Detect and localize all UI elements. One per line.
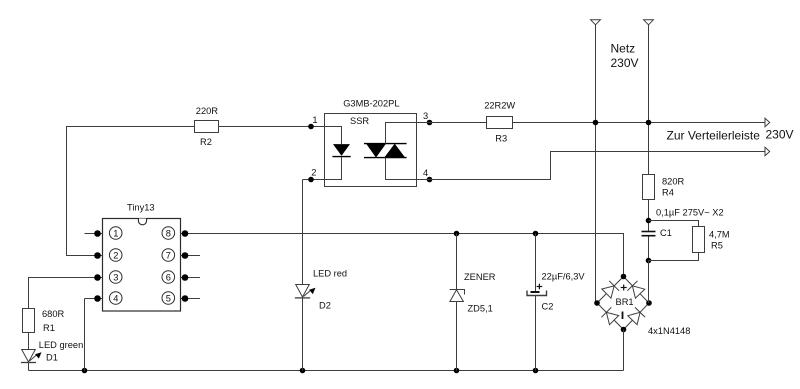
BR1 diode top-right — [627, 281, 644, 298]
zener diode ZD5,1 — [450, 272, 496, 313]
wire C2 branch upper — [535, 234, 537, 292]
svg-text:1: 1 — [113, 228, 118, 238]
capacitor C1 — [642, 228, 672, 238]
svg-text:4x1N4148: 4x1N4148 — [648, 326, 690, 336]
svg-text:230V: 230V — [611, 56, 639, 70]
wire bottom rail — [29, 370, 624, 372]
wire SSR pin4 to output arrow (phase 2 out) — [417, 152, 766, 180]
wire D2 to ground rail — [302, 298, 304, 371]
node bottom rail / zener — [454, 368, 460, 374]
Tiny13 pin 1 — [85, 227, 122, 240]
svg-text:LED green: LED green — [39, 340, 83, 350]
node BR1 bottom — [621, 327, 627, 333]
node SSR pin2 dot — [308, 177, 314, 183]
svg-text:D2: D2 — [319, 301, 331, 311]
svg-text:SSR: SSR — [350, 116, 369, 126]
Tiny13 pin 5 — [162, 292, 200, 305]
svg-text:820R: 820R — [662, 177, 685, 187]
resistor R3 — [484, 101, 515, 144]
BR1 diode bottom-left — [601, 307, 618, 324]
node SSR pin4 dot — [427, 177, 433, 183]
arrow output phase 1 — [765, 118, 770, 127]
Tiny13 pin 7 — [162, 249, 200, 262]
svg-text:3: 3 — [113, 272, 118, 282]
wire SSR pin2 down through D2 — [302, 180, 304, 285]
svg-text:G3MB-202PL: G3MB-202PL — [343, 99, 399, 109]
node SSR pin3 dot — [427, 120, 433, 126]
node SSR pin1 dot — [308, 124, 314, 130]
Tiny13 pin 2 — [85, 249, 122, 262]
svg-text:C1: C1 — [660, 228, 672, 238]
node junction wire1/netz2 — [646, 120, 652, 126]
node bottom rail / C2 — [533, 368, 539, 374]
svg-text:220R: 220R — [196, 106, 219, 116]
wire C2 branch lower — [535, 296, 537, 371]
wire Netz phase2 upper vertical — [648, 25, 650, 175]
svg-text:4: 4 — [113, 293, 118, 303]
power symbol Netz phase 2 (arrow) — [644, 20, 654, 25]
node BR1 left — [594, 300, 600, 306]
svg-text:0,1µF 275V~ X2: 0,1µF 275V~ X2 — [656, 208, 724, 218]
wire R1 to LED D1 — [28, 333, 30, 350]
svg-text:5: 5 — [166, 293, 171, 303]
svg-text:Zur Verteilerleiste: Zur Verteilerleiste — [667, 129, 761, 143]
wire R4 to C1 node — [648, 200, 650, 232]
Tiny13 pin 4 — [85, 292, 122, 305]
wire R2 net: from R2 left down to Tiny13 pin2 — [67, 127, 195, 256]
Tiny13 pin 3 — [85, 271, 122, 284]
wire zener branch upper — [456, 234, 458, 290]
svg-text:D1: D1 — [46, 352, 58, 362]
BR1 minus mark — [622, 312, 624, 320]
svg-text:22R2W: 22R2W — [484, 101, 515, 111]
wire R3 to output arrow (phase 1 out) — [513, 122, 766, 124]
wire C1 bottom to lower node — [648, 237, 650, 304]
wire Netz phase1 vertical — [595, 25, 597, 303]
svg-text:2: 2 — [311, 167, 316, 177]
wire D1 to ground rail — [28, 363, 30, 371]
node pin8 wire / C2 — [533, 231, 539, 237]
svg-text:6: 6 — [166, 272, 171, 282]
svg-text:2: 2 — [113, 250, 118, 260]
svg-text:ZD5,1: ZD5,1 — [468, 303, 493, 313]
svg-text:680R: 680R — [42, 309, 65, 319]
node bottom rail / D2 — [300, 368, 306, 374]
svg-text:3: 3 — [423, 111, 428, 121]
arrow output phase 2 — [765, 147, 770, 156]
wire zener branch lower — [456, 302, 458, 371]
svg-text:LED red: LED red — [313, 269, 347, 279]
svg-text:230V: 230V — [766, 127, 794, 141]
node C1 bottom junction — [646, 258, 652, 264]
wire pin4 down to rail — [84, 299, 86, 371]
LED red D2 — [295, 269, 347, 311]
wire BR1 right up to C1 node — [648, 261, 650, 304]
wire R2 to SSR pin1 — [219, 126, 325, 128]
IC Tiny13 box — [103, 203, 181, 312]
resistor R5 — [693, 227, 730, 253]
SSR internal triac — [364, 144, 407, 158]
svg-text:4: 4 — [423, 168, 428, 178]
resistor R1 — [23, 309, 65, 334]
capacitor C2 (electrolytic) — [527, 272, 585, 312]
wire R5 parallel loop bottom — [649, 253, 699, 261]
svg-text:C2: C2 — [542, 301, 554, 311]
label Zur Verteilerleiste 230V — [667, 127, 794, 142]
BR1 diode bottom-right — [628, 307, 645, 324]
svg-text:22µF/6,3V: 22µF/6,3V — [542, 272, 586, 282]
svg-text:1: 1 — [312, 115, 317, 125]
SSR triac bottom wire to pin4 — [386, 158, 417, 180]
node BR1 right — [646, 300, 652, 306]
wire pin8 to bridge top — [200, 234, 624, 277]
svg-text:BR1: BR1 — [616, 297, 634, 307]
SSR triac top wire to pin3 — [386, 123, 417, 144]
LED green D1 — [21, 340, 83, 362]
SSR internal LED wire — [325, 127, 342, 145]
label Netz 230V — [611, 42, 639, 70]
svg-text:R1: R1 — [43, 323, 55, 333]
svg-text:Tiny13: Tiny13 — [127, 203, 155, 213]
SSR internal LED (filled diode) — [332, 144, 350, 157]
svg-text:R3: R3 — [495, 133, 507, 143]
resistor R2 — [195, 106, 219, 147]
svg-text:R2: R2 — [200, 137, 212, 147]
svg-text:4,7M: 4,7M — [709, 229, 730, 239]
Tiny13 pin 8 — [162, 227, 200, 240]
wire BR1 bottom to rail — [623, 330, 625, 371]
wire R5 parallel loop top — [649, 221, 699, 227]
bridge rectifier BR1 diamond — [597, 277, 649, 330]
opto-triac SSR U1 G3MB-202PL box — [325, 99, 417, 187]
node BR1 top — [621, 274, 627, 280]
wire SSR pin2 stub — [303, 179, 325, 181]
BR1 diode top-left — [602, 281, 619, 298]
svg-text:R4: R4 — [662, 188, 674, 198]
node C1 top junction — [646, 218, 652, 224]
svg-text:ZENER: ZENER — [464, 272, 496, 282]
node junction wire1/netz1 — [593, 120, 599, 126]
node pin8 wire / zener — [454, 231, 460, 237]
BR1 plus mark — [621, 285, 627, 291]
svg-text:8: 8 — [166, 228, 171, 238]
node bottom rail / pin4 — [82, 368, 88, 374]
resistor R4 — [643, 175, 685, 200]
svg-text:7: 7 — [166, 250, 171, 260]
SSR internal LED lower wire to pin2 — [325, 157, 342, 179]
Tiny13 pin 6 — [162, 271, 200, 284]
svg-text:Netz: Netz — [611, 42, 636, 56]
wire SSR pin3 to R3 — [417, 122, 487, 124]
power symbol Netz phase 1 (arrow) — [591, 20, 601, 25]
wire pin3 to R1 — [29, 278, 85, 309]
svg-text:R5: R5 — [711, 241, 723, 251]
